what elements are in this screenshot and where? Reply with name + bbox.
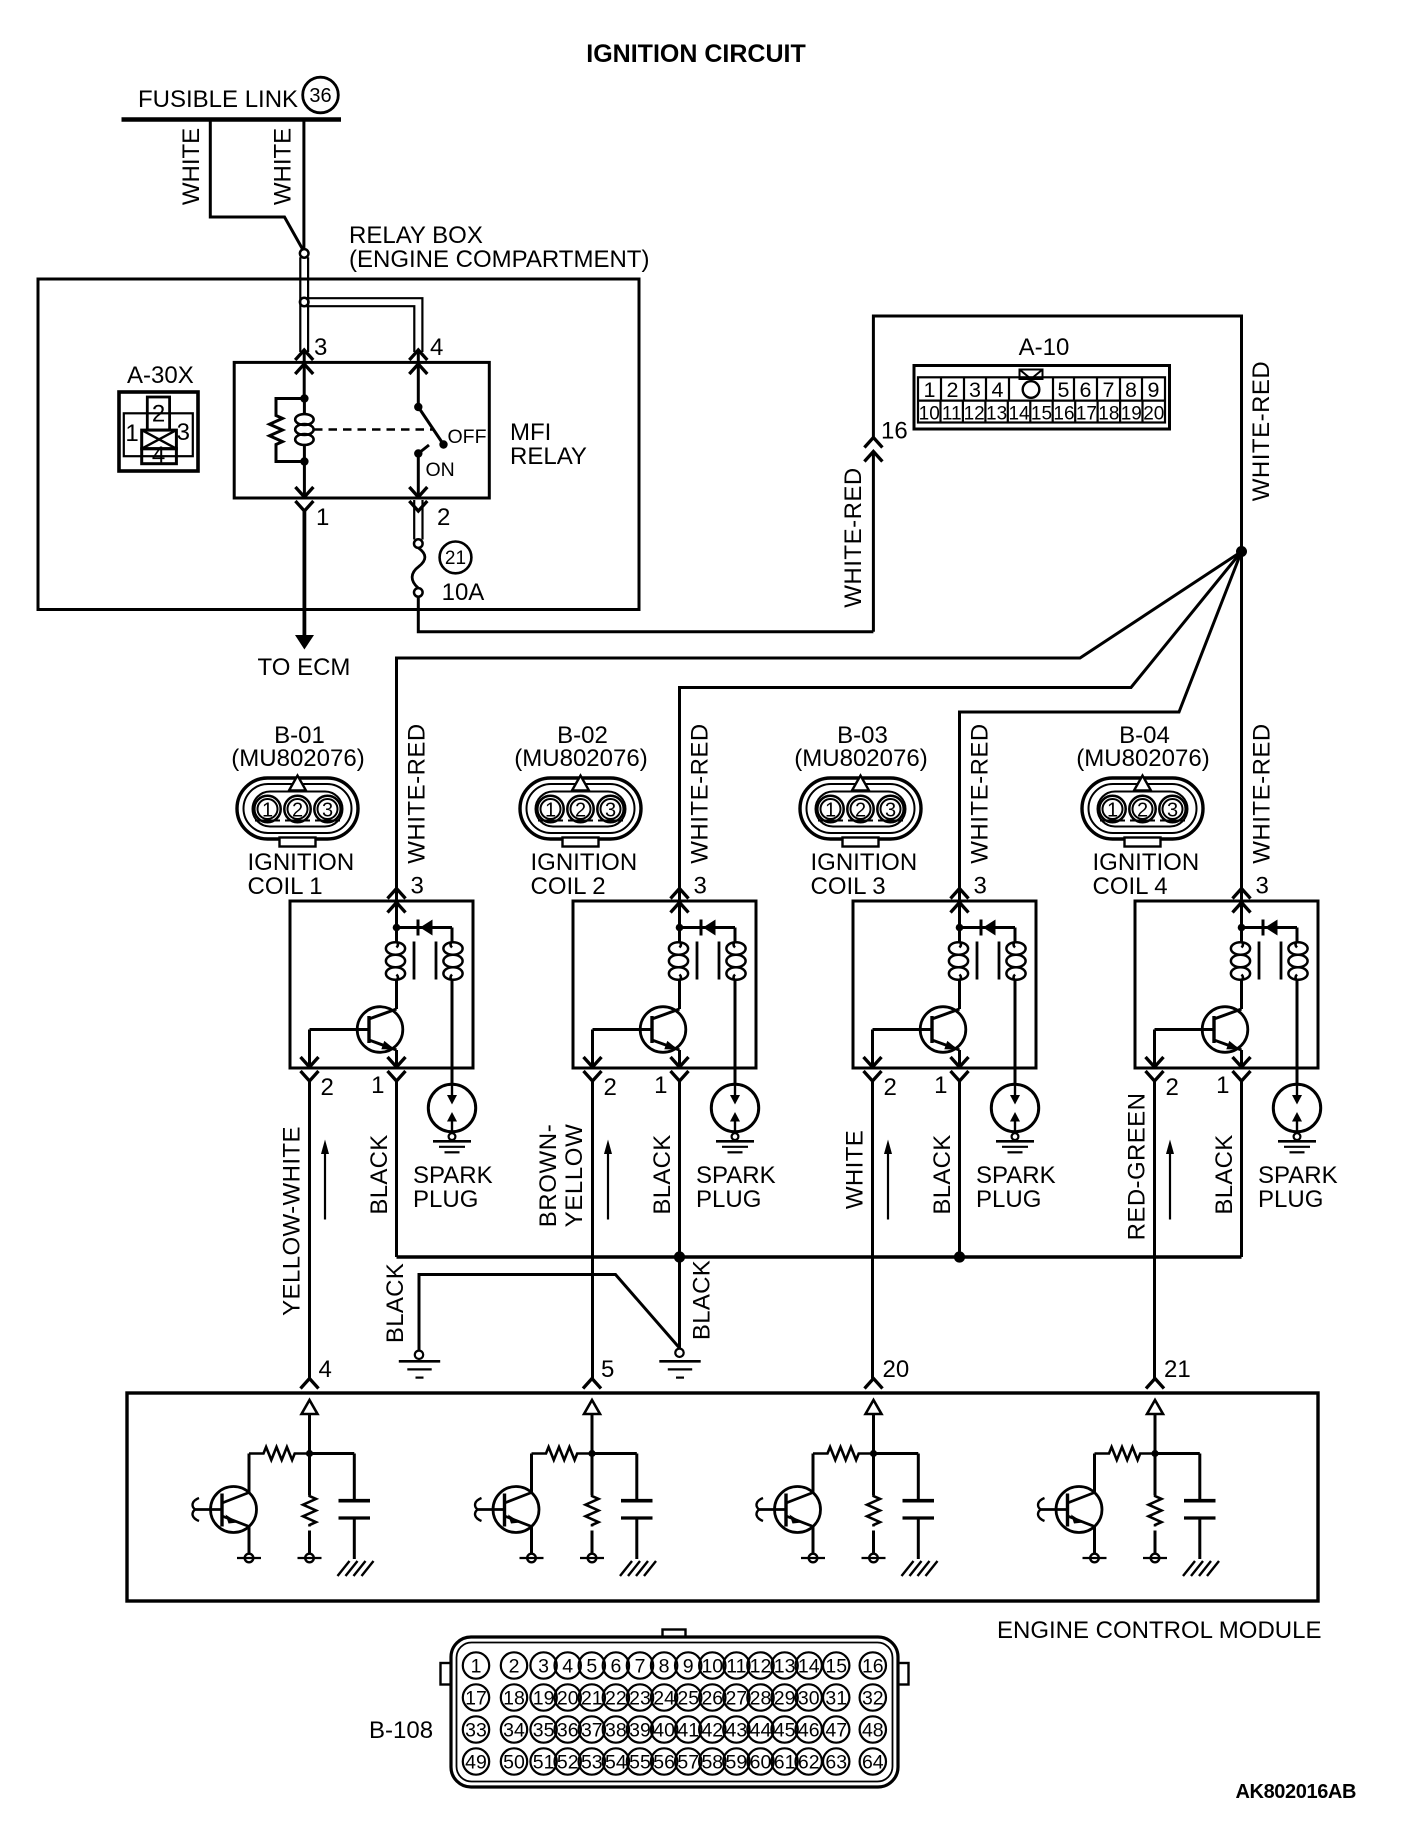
svg-text:47: 47 (825, 1719, 847, 1741)
connector B-03 symbol (800, 776, 921, 847)
wire primary to transistor coil 2 (678, 980, 681, 1009)
ECM terminal circles circuit 2 (520, 1527, 605, 1563)
pin 3 connector arrows (295, 350, 313, 374)
dashed actuation link (314, 428, 433, 431)
coil 1 junction dot (393, 924, 401, 932)
svg-text:7: 7 (1103, 378, 1115, 402)
svg-text:36: 36 (557, 1719, 579, 1741)
svg-text:21: 21 (581, 1687, 603, 1709)
svg-text:48: 48 (862, 1719, 884, 1741)
wire secondary to spark plug coil 2 (734, 980, 737, 1084)
svg-text:30: 30 (798, 1687, 820, 1709)
svg-text:11: 11 (942, 404, 962, 425)
wire primary to transistor coil 1 (395, 980, 398, 1009)
ECM pin 4 connector arrow (301, 1379, 319, 1389)
diode coil 3 (960, 920, 1016, 942)
wire coil 2 pin2 to ECM (591, 1081, 594, 1379)
svg-text:YELLOW: YELLOW (561, 1124, 588, 1228)
svg-text:29: 29 (774, 1687, 796, 1709)
svg-text:4: 4 (152, 442, 165, 469)
coil 4 internal feed wire (1240, 902, 1243, 942)
svg-text:AK802016AB: AK802016AB (1236, 1781, 1357, 1803)
svg-text:3: 3 (411, 873, 424, 900)
wire base to pin 2 coil 2 (591, 1030, 594, 1069)
svg-text:MFI: MFI (510, 419, 551, 446)
wire coil 3 pin2 to ECM (871, 1081, 874, 1379)
label SPARK PLUG 3 (976, 1162, 1056, 1213)
svg-text:1: 1 (654, 1072, 667, 1099)
coil 1 pin 1 connector arrows (388, 1057, 406, 1081)
svg-text:BLACK: BLACK (929, 1134, 956, 1214)
svg-text:21: 21 (445, 548, 466, 569)
wire coil 1 pin2 to ECM (308, 1081, 311, 1379)
svg-text:WHITE-RED: WHITE-RED (404, 723, 431, 863)
svg-text:6: 6 (610, 1655, 621, 1677)
label IGNITION COIL 2 (531, 849, 638, 900)
junction dots relay coil (300, 394, 308, 465)
connector B-01 labels (231, 722, 364, 772)
label IGNITION COIL 4 (1093, 849, 1200, 900)
ECM terminal circles circuit 4 (1083, 1527, 1168, 1563)
svg-text:25: 25 (677, 1687, 699, 1709)
svg-text:2: 2 (604, 1074, 617, 1101)
wire WHITE-RED to ignition coil 1 (397, 552, 1242, 903)
svg-text:54: 54 (605, 1751, 627, 1773)
svg-text:41: 41 (677, 1719, 699, 1741)
svg-text:15: 15 (825, 1655, 847, 1677)
svg-text:9: 9 (683, 1655, 694, 1677)
connector A-10 body (914, 366, 1170, 430)
connector B-02 symbol (520, 776, 641, 847)
relay coil L1 (295, 399, 313, 462)
label SPARK PLUG 2 (696, 1162, 776, 1213)
svg-text:40: 40 (653, 1719, 675, 1741)
ECM pin 5 connector arrow (583, 1379, 601, 1389)
svg-text:BROWN-: BROWN- (535, 1124, 562, 1228)
connector B-02 labels (514, 722, 647, 772)
ECM transistor circuit 3 (757, 1487, 821, 1533)
connector B-04 symbol (1082, 776, 1203, 847)
spark plug 3 (991, 1084, 1038, 1152)
svg-text:(ENGINE COMPARTMENT): (ENGINE COMPARTMENT) (349, 246, 649, 273)
svg-text:PLUG: PLUG (976, 1186, 1041, 1213)
svg-text:39: 39 (629, 1719, 651, 1741)
connector B-01 symbol (237, 776, 358, 847)
connector A-30X symbol (119, 392, 198, 471)
ECM circuit 2 wiring (532, 1414, 637, 1501)
svg-text:(MU802076): (MU802076) (514, 745, 647, 772)
svg-text:57: 57 (677, 1751, 699, 1773)
ECM input triangle pin 5 (584, 1400, 600, 1414)
coil 3 pin 2 connector arrows (864, 1057, 882, 1081)
ECM vertical resistor circuit 2 (586, 1495, 599, 1527)
svg-text:33: 33 (465, 1719, 487, 1741)
svg-text:A-30X: A-30X (127, 362, 194, 389)
svg-text:4: 4 (992, 378, 1004, 402)
transformer primary winding coil 2 (669, 942, 688, 981)
svg-text:32: 32 (862, 1687, 884, 1709)
ECM vertical resistor circuit 1 (303, 1495, 316, 1527)
svg-text:5: 5 (601, 1356, 614, 1383)
MFI relay label (510, 419, 587, 470)
ECM terminal circles circuit 1 (237, 1527, 322, 1563)
fusible link 36 label (138, 77, 338, 113)
svg-text:18: 18 (503, 1687, 525, 1709)
junction dot WHITE-RED fanout (1236, 546, 1247, 557)
svg-text:59: 59 (726, 1751, 748, 1773)
wire pin3 to relay coil (303, 352, 306, 399)
pin 2 connector arrows (409, 487, 427, 511)
svg-text:IGNITION: IGNITION (248, 849, 355, 876)
svg-text:8: 8 (1125, 378, 1137, 402)
wire coil 3 pin1 to ground bus (958, 1081, 961, 1257)
svg-text:14: 14 (798, 1655, 820, 1677)
svg-text:2: 2 (292, 800, 303, 822)
label IGNITION COIL 3 (811, 849, 918, 900)
flow arrow coil 4 (1166, 1140, 1174, 1220)
power transistor coil 3 (873, 1007, 966, 1053)
svg-text:46: 46 (798, 1719, 820, 1741)
svg-text:12: 12 (750, 1655, 772, 1677)
coil 2 junction dot (676, 924, 684, 932)
relay resistor parallel branch (270, 399, 305, 462)
svg-text:1: 1 (1216, 1072, 1229, 1099)
svg-text:PLUG: PLUG (696, 1186, 761, 1213)
MFI relay box (234, 362, 489, 498)
label SPARK PLUG 4 (1258, 1162, 1338, 1213)
coil 1 pin 2 connector arrows (301, 1057, 319, 1081)
svg-text:3: 3 (1256, 873, 1269, 900)
ignition coil 4 box (1135, 901, 1318, 1068)
wire WHITE right (302, 120, 305, 249)
transformer core coil 2 (697, 942, 719, 980)
coil 1 internal feed wire (395, 902, 398, 942)
svg-text:20: 20 (1143, 404, 1164, 425)
svg-text:61: 61 (774, 1751, 796, 1773)
wire base to pin 2 coil 4 (1153, 1030, 1156, 1069)
transformer core coil 3 (977, 942, 999, 980)
transformer secondary winding coil 4 (1288, 942, 1307, 981)
svg-text:7: 7 (635, 1655, 646, 1677)
svg-text:2: 2 (1166, 1074, 1179, 1101)
svg-text:OFF: OFF (448, 426, 487, 448)
svg-text:WHITE: WHITE (842, 1130, 869, 1209)
flow arrow coil 1 (321, 1140, 329, 1220)
svg-text:64: 64 (862, 1751, 884, 1773)
svg-text:36: 36 (309, 85, 331, 107)
ECM vertical resistor circuit 3 (867, 1495, 880, 1527)
svg-text:COIL 2: COIL 2 (531, 873, 606, 900)
svg-text:WHITE-RED: WHITE-RED (967, 723, 994, 863)
svg-text:SPARK: SPARK (1258, 1162, 1338, 1189)
ECM terminal circles circuit 3 (801, 1527, 886, 1563)
svg-text:YELLOW-WHITE: YELLOW-WHITE (279, 1126, 306, 1316)
wire primary to transistor coil 3 (958, 980, 961, 1009)
bus junction dot coil3 (954, 1251, 965, 1262)
wire primary to transistor coil 4 (1240, 980, 1243, 1009)
coil 3 internal feed wire (958, 902, 961, 942)
wire to ECM with arrow (295, 511, 314, 650)
connector B-108 body (441, 1630, 909, 1788)
wire coil 2 pin1 to ground bus (678, 1081, 681, 1257)
svg-text:2: 2 (575, 800, 586, 822)
ignition coil 1 box (290, 901, 473, 1068)
fusible link holder pin2 (414, 500, 422, 540)
svg-text:COIL 1: COIL 1 (248, 873, 323, 900)
wire fuse to A-10 pin 16 (418, 597, 873, 632)
spark plug 2 (711, 1084, 758, 1152)
svg-text:WHITE-RED: WHITE-RED (1248, 361, 1275, 501)
svg-text:COIL 3: COIL 3 (811, 873, 886, 900)
wire secondary to spark plug coil 1 (451, 980, 454, 1084)
svg-text:WHITE-RED: WHITE-RED (687, 723, 714, 863)
label IGNITION COIL 1 (248, 849, 355, 900)
fusible link bus bar (122, 117, 342, 122)
ignition coil 2 box (573, 901, 756, 1068)
svg-text:58: 58 (701, 1751, 723, 1773)
wire emitter to pin 1 coil 4 (1240, 1050, 1243, 1068)
svg-text:16: 16 (1053, 404, 1074, 425)
svg-text:RELAY BOX: RELAY BOX (349, 222, 483, 249)
diode coil 4 (1242, 920, 1298, 942)
ECM vertical resistor circuit 4 (1149, 1495, 1162, 1527)
chassis ground circuit 3 (902, 1561, 938, 1576)
svg-text:4: 4 (319, 1356, 332, 1383)
svg-text:34: 34 (503, 1719, 525, 1741)
wire secondary to spark plug coil 4 (1296, 980, 1299, 1084)
svg-text:1: 1 (316, 504, 329, 531)
svg-text:2: 2 (509, 1655, 520, 1677)
svg-text:53: 53 (581, 1751, 603, 1773)
svg-text:13: 13 (986, 404, 1007, 425)
svg-text:RED-GREEN: RED-GREEN (1124, 1093, 1151, 1241)
wire A-10 harness frame (873, 316, 1241, 902)
transformer secondary winding coil 3 (1006, 942, 1025, 981)
svg-text:37: 37 (581, 1719, 603, 1741)
svg-text:3: 3 (974, 873, 987, 900)
svg-text:10: 10 (919, 404, 940, 425)
svg-text:19: 19 (1121, 404, 1142, 425)
ECM capacitor circuit 1 (339, 1501, 371, 1559)
transformer secondary winding coil 1 (443, 942, 462, 981)
coil 1 pin 3 connector arrows (388, 889, 406, 913)
transformer primary winding coil 3 (949, 942, 968, 981)
svg-text:5: 5 (1058, 378, 1070, 402)
svg-text:(MU802076): (MU802076) (794, 745, 927, 772)
svg-text:SPARK: SPARK (413, 1162, 493, 1189)
spark plug 1 (428, 1084, 475, 1152)
connector B-108 pins (463, 1652, 886, 1774)
chassis ground circuit 4 (1183, 1561, 1219, 1576)
wire pin16 down (872, 452, 875, 632)
wire relay coil to pin 1 (303, 462, 306, 499)
power transistor coil 4 (1155, 1007, 1248, 1053)
connector B-03 labels (794, 722, 927, 772)
svg-text:16: 16 (862, 1655, 884, 1677)
svg-text:COIL 4: COIL 4 (1093, 873, 1168, 900)
pin 4 connector arrows (409, 350, 427, 374)
svg-text:4: 4 (562, 1655, 573, 1677)
svg-text:BLACK: BLACK (382, 1263, 409, 1343)
transformer primary winding coil 1 (386, 942, 405, 981)
svg-text:3: 3 (885, 800, 896, 822)
svg-text:PLUG: PLUG (413, 1186, 478, 1213)
svg-text:1: 1 (262, 800, 273, 822)
ECM capacitor circuit 2 (621, 1501, 653, 1559)
flow arrow coil 3 (884, 1140, 892, 1220)
ECM capacitor circuit 4 (1184, 1501, 1216, 1559)
connector B-04 labels (1076, 722, 1209, 772)
svg-text:WHITE-RED: WHITE-RED (1249, 723, 1276, 863)
svg-text:15: 15 (1031, 404, 1052, 425)
svg-text:14: 14 (1008, 404, 1030, 425)
spark plug 4 (1273, 1084, 1320, 1152)
svg-text:62: 62 (798, 1751, 820, 1773)
diode coil 2 (680, 920, 736, 942)
ECM pin 21 connector arrow (1146, 1379, 1164, 1389)
wire base to pin 2 coil 3 (871, 1030, 874, 1069)
svg-text:BLACK: BLACK (689, 1260, 716, 1340)
ECM transistor circuit 2 (475, 1487, 539, 1533)
svg-text:1: 1 (545, 800, 556, 822)
coil 4 pin 2 connector arrows (1146, 1057, 1164, 1081)
svg-text:52: 52 (557, 1751, 579, 1773)
svg-text:1: 1 (471, 1655, 482, 1677)
svg-text:4: 4 (430, 334, 443, 361)
coil 2 pin 2 connector arrows (584, 1057, 602, 1081)
svg-text:2: 2 (152, 401, 165, 428)
svg-text:6: 6 (1080, 378, 1092, 402)
svg-text:43: 43 (726, 1719, 748, 1741)
ECM transistor circuit 4 (1038, 1487, 1102, 1533)
svg-text:50: 50 (503, 1751, 525, 1773)
svg-text:20: 20 (557, 1687, 579, 1709)
svg-text:28: 28 (750, 1687, 772, 1709)
chassis ground circuit 1 (338, 1561, 374, 1576)
power transistor coil 1 (310, 1007, 403, 1053)
wire WHITE-RED to ignition coil 3 (960, 552, 1242, 903)
svg-text:19: 19 (533, 1687, 555, 1709)
ECM capacitor circuit 3 (903, 1501, 935, 1559)
svg-text:1: 1 (924, 378, 936, 402)
svg-text:WHITE: WHITE (178, 128, 205, 205)
transformer core coil 4 (1259, 942, 1281, 980)
svg-text:RELAY: RELAY (510, 443, 587, 470)
svg-text:2: 2 (1137, 800, 1148, 822)
svg-text:A-10: A-10 (1019, 334, 1070, 361)
wire secondary to spark plug coil 3 (1014, 980, 1017, 1084)
wire emitter to pin 1 coil 1 (395, 1050, 398, 1068)
wire WHITE-RED to ignition coil 2 (680, 552, 1242, 903)
fuse 21 10A element (412, 539, 425, 596)
relay box outline (38, 279, 639, 610)
coil 4 pin 3 connector arrows (1233, 889, 1251, 913)
svg-text:11: 11 (726, 1655, 746, 1677)
svg-text:BLACK: BLACK (1211, 1134, 1238, 1214)
svg-text:44: 44 (750, 1719, 772, 1741)
svg-text:60: 60 (750, 1751, 772, 1773)
svg-text:WHITE-RED: WHITE-RED (840, 467, 867, 607)
A-10 pin16 connector arrows (864, 438, 882, 462)
svg-text:3: 3 (177, 419, 190, 446)
coil 2 pin 3 connector arrows (671, 889, 689, 913)
svg-text:17: 17 (1076, 404, 1097, 425)
svg-text:(MU802076): (MU802076) (1076, 745, 1209, 772)
coil 2 internal feed wire (678, 902, 681, 942)
double wire to MFI relay pin 3 (300, 257, 308, 352)
svg-text:21: 21 (1164, 1356, 1191, 1383)
svg-text:10: 10 (701, 1655, 723, 1677)
svg-text:16: 16 (881, 418, 908, 445)
svg-text:8: 8 (659, 1655, 670, 1677)
svg-text:22: 22 (605, 1687, 627, 1709)
svg-text:1: 1 (825, 800, 836, 822)
svg-text:63: 63 (825, 1751, 847, 1773)
coil 4 junction dot (1238, 924, 1246, 932)
ECM circuit 3 wiring (813, 1414, 918, 1501)
svg-text:3: 3 (605, 800, 616, 822)
svg-text:2: 2 (321, 1074, 334, 1101)
svg-text:3: 3 (1167, 800, 1178, 822)
svg-text:26: 26 (701, 1687, 723, 1709)
svg-text:FUSIBLE LINK: FUSIBLE LINK (138, 86, 298, 113)
BLACK ground bus (397, 1255, 1242, 1258)
svg-text:IGNITION CIRCUIT: IGNITION CIRCUIT (586, 40, 805, 68)
svg-text:(MU802076): (MU802076) (231, 745, 364, 772)
ignition coil 3 box (853, 901, 1036, 1068)
ECM input triangle pin 21 (1147, 1400, 1163, 1414)
svg-text:18: 18 (1098, 404, 1119, 425)
power transistor coil 2 (593, 1007, 686, 1053)
svg-text:3: 3 (694, 873, 707, 900)
svg-text:2: 2 (437, 504, 450, 531)
wire coil 1 pin1 to ground bus (395, 1081, 398, 1257)
transformer secondary winding coil 2 (726, 942, 745, 981)
double wire branch to MFI relay pin 4 (306, 298, 422, 352)
wire base to pin 2 coil 1 (308, 1030, 311, 1069)
wire color label coil 2 (535, 1124, 588, 1228)
relay box label (349, 222, 649, 273)
engine control module box (127, 1393, 1318, 1601)
coil 3 pin 3 connector arrows (951, 889, 969, 913)
coil 3 pin 1 connector arrows (951, 1057, 969, 1081)
wire WHITE left (210, 120, 302, 250)
wire coil 4 pin2 to ECM (1153, 1081, 1156, 1379)
svg-text:1: 1 (371, 1072, 384, 1099)
svg-text:5: 5 (586, 1655, 597, 1677)
svg-text:BLACK: BLACK (649, 1134, 676, 1214)
svg-text:35: 35 (533, 1719, 555, 1741)
svg-text:51: 51 (533, 1751, 555, 1773)
svg-text:ON: ON (426, 459, 455, 481)
connector junction circles (300, 249, 309, 306)
svg-text:13: 13 (774, 1655, 796, 1677)
svg-text:SPARK: SPARK (976, 1162, 1056, 1189)
svg-text:IGNITION: IGNITION (811, 849, 918, 876)
svg-text:12: 12 (964, 404, 985, 425)
svg-text:2: 2 (947, 378, 959, 402)
svg-text:24: 24 (653, 1687, 675, 1709)
svg-text:TO ECM: TO ECM (258, 654, 351, 681)
diode coil 1 (397, 920, 453, 942)
fuse number 21 circled (440, 542, 472, 574)
transformer core coil 1 (414, 942, 436, 980)
svg-text:10A: 10A (442, 579, 485, 606)
ground symbol left (399, 1351, 440, 1378)
ECM pin 20 connector arrow (865, 1379, 883, 1389)
svg-text:2: 2 (855, 800, 866, 822)
svg-text:55: 55 (629, 1751, 651, 1773)
